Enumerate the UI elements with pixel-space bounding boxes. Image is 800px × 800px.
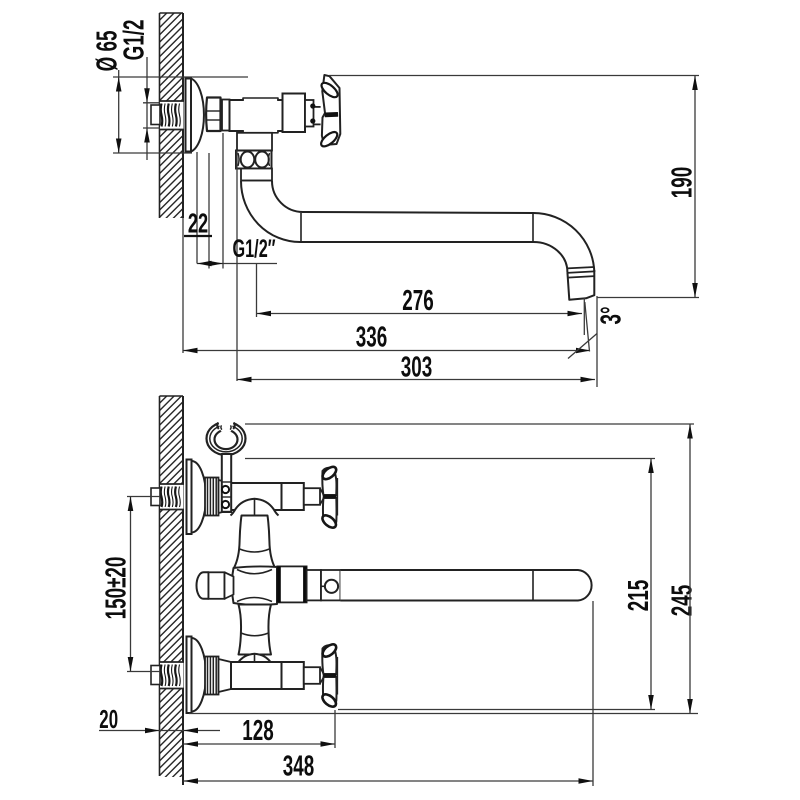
upper wall escutcheon + valve body + cross handle (bottom view) <box>192 461 207 533</box>
downpipe below nut (top view) <box>241 169 272 181</box>
spout collar + swivel detail (bottom view) <box>307 570 321 600</box>
svg-text:20: 20 <box>99 704 118 734</box>
valve body tube (top view) <box>230 100 283 131</box>
spout elbow from downpipe (top view) <box>241 181 533 242</box>
wall (bottom view, hatched section) <box>160 373 184 798</box>
aerator / spout outlet tilted 3deg (top view) <box>567 267 594 268</box>
svg-text:245: 245 <box>666 585 698 616</box>
lower wall escutcheon + valve body + cross handle (bottom view) <box>192 638 207 712</box>
svg-text:336: 336 <box>356 322 387 354</box>
spout union nut with facets (top view) <box>236 151 272 169</box>
svg-text:G1/2″: G1/2″ <box>232 236 275 263</box>
cross handle (top view) <box>322 75 340 145</box>
svg-text:276: 276 <box>402 285 433 317</box>
svg-text:150±20: 150±20 <box>101 557 133 620</box>
central body tube lower (bottom view) <box>239 605 272 655</box>
tee skirt below body (top view) <box>237 133 272 151</box>
shower hook stem (bottom view) <box>222 454 231 512</box>
svg-text:348: 348 <box>283 751 314 783</box>
lower threaded union (in wall, bottom view) <box>160 662 184 689</box>
spout tube (bottom view) <box>340 570 591 601</box>
hex nut (top view) <box>206 98 220 132</box>
svg-text:190: 190 <box>667 167 699 198</box>
lower tee flare (bottom view) <box>233 654 277 670</box>
wall (top view, hatched section) <box>160 0 184 239</box>
diverter knob (bottom view) <box>197 572 209 599</box>
spout union nut (bottom view) <box>277 566 306 602</box>
central body tube upper (bottom view) <box>234 516 275 568</box>
pipe stub left of wall (top view) <box>151 105 160 125</box>
svg-text:128: 128 <box>242 715 273 747</box>
shower hook ring (bottom view) <box>207 419 246 455</box>
spout down-elbow (top view) <box>533 213 594 272</box>
svg-text:215: 215 <box>623 580 655 611</box>
upper threaded union (in wall, bottom view) <box>160 484 184 510</box>
handle stem plate (top view) <box>305 100 314 127</box>
middle cross body with diverter (bottom view) <box>232 566 277 605</box>
threaded eccentric union (in wall, top view) <box>160 101 184 130</box>
spout horizontal tube joint (top view) <box>532 213 534 242</box>
svg-text:G1/2: G1/2 <box>119 20 151 61</box>
upper tee flare (bottom view) <box>231 499 279 516</box>
svg-text:3°: 3° <box>596 306 628 324</box>
cartridge bonnet (top view) <box>283 94 306 133</box>
collar (top view) <box>222 100 230 131</box>
svg-text:22: 22 <box>188 209 208 240</box>
extension lines below escutcheon (top view) <box>196 152 198 264</box>
lower pipe stub (bottom view) <box>151 666 160 685</box>
escutcheon (wall flange, top view) <box>191 79 204 152</box>
upper pipe stub (bottom view) <box>151 488 160 506</box>
